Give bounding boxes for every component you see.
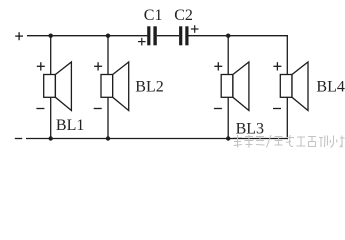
speaker BL4 [273, 62, 345, 111]
speaker BL2 [94, 62, 164, 111]
svg-text:BL3: BL3 [236, 121, 264, 138]
wire: BL4 branch bottom [286, 97, 288, 139]
capacitor C2 [174, 7, 198, 46]
capacitor C1 [138, 7, 162, 46]
wire: bottom rail [26, 138, 288, 140]
svg-text:BL1: BL1 [56, 117, 84, 134]
wire: BL1 branch top [50, 36, 52, 75]
junction: BL2 bottom [106, 136, 110, 140]
junction: BL1 bottom [49, 136, 53, 140]
wire: BL2 branch top [107, 36, 109, 75]
wire: BL3 branch top [227, 36, 229, 75]
junction: BL2 top [106, 34, 110, 38]
wire: link C1 to C2 [157, 35, 179, 37]
svg-text:C1: C1 [144, 7, 163, 24]
speaker BL3 [214, 62, 264, 138]
svg-text:C2: C2 [174, 7, 193, 24]
positive input terminal + [15, 32, 23, 40]
svg-text:BL4: BL4 [316, 79, 344, 96]
speaker BL1 [36, 62, 84, 134]
junction: BL3 bottom [226, 136, 230, 140]
watermark text [233, 135, 345, 148]
wire: right drop (corner to BL4 top) [286, 35, 288, 74]
wire: top rail right (C2 to corner) [189, 35, 288, 37]
wire: BL1 branch bottom [50, 97, 52, 138]
junction: BL3 top [226, 34, 230, 38]
wire: BL3 branch bottom [227, 97, 229, 138]
svg-text:BL2: BL2 [135, 79, 163, 96]
wire: BL2 branch bottom [107, 97, 109, 138]
junction: BL1 top [49, 34, 53, 38]
wire: top rail left (input+ to C1) [27, 35, 147, 37]
negative input terminal - [15, 138, 22, 140]
